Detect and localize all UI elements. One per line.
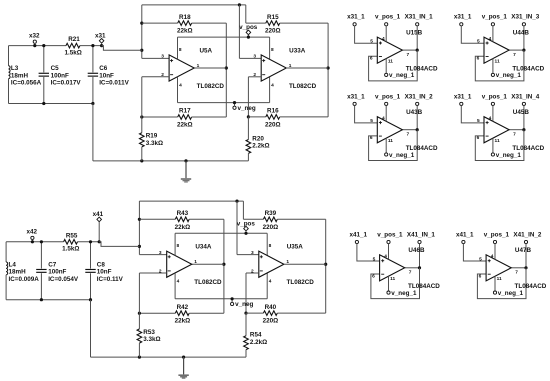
svg-text:U43B: U43B bbox=[406, 109, 423, 116]
resistor R53 bbox=[137, 273, 161, 357]
node x41 bbox=[93, 211, 104, 244]
svg-text:6: 6 bbox=[477, 56, 480, 62]
svg-text:U45B: U45B bbox=[513, 109, 530, 116]
svg-text:2.2kΩ: 2.2kΩ bbox=[252, 143, 269, 150]
node v_pos top bbox=[239, 24, 258, 39]
node v_pos_1 (U43B) bbox=[375, 93, 401, 105]
node x42 bbox=[27, 229, 38, 244]
svg-text:X31_IN_1: X31_IN_1 bbox=[405, 14, 434, 21]
node v_pos_1 (U47B) bbox=[484, 231, 510, 243]
svg-text:v_pos: v_pos bbox=[239, 24, 258, 31]
svg-text:7: 7 bbox=[406, 132, 409, 138]
svg-text:220Ω: 220Ω bbox=[265, 28, 281, 35]
svg-text:100nF: 100nF bbox=[51, 72, 69, 79]
pin numbers U34A bbox=[159, 243, 197, 285]
svg-text:v_pos_1: v_pos_1 bbox=[377, 231, 403, 238]
svg-text:3.3kΩ: 3.3kΩ bbox=[143, 336, 160, 343]
svg-text:4: 4 bbox=[489, 116, 492, 122]
capacitor C5 bbox=[39, 44, 82, 104]
resistor R20 bbox=[246, 117, 270, 161]
wire top U1 output node bbox=[194, 23, 228, 117]
wire U44B feedback bbox=[475, 50, 524, 81]
wire top v_pos rail bbox=[178, 37, 270, 59]
svg-text:4: 4 bbox=[384, 254, 387, 260]
svg-text:x31_1: x31_1 bbox=[454, 14, 472, 21]
svg-text:x31_1: x31_1 bbox=[347, 93, 365, 100]
wire U44B input bbox=[461, 26, 484, 44]
svg-text:10nF: 10nF bbox=[99, 72, 114, 79]
capacitor C8 bbox=[85, 240, 123, 300]
svg-text:TL082CD: TL082CD bbox=[289, 83, 317, 90]
node v_neg top bbox=[233, 101, 256, 112]
svg-text:v_pos_1: v_pos_1 bbox=[482, 14, 508, 21]
svg-text:R55: R55 bbox=[66, 232, 78, 239]
svg-text:18mH: 18mH bbox=[9, 269, 27, 276]
wire bot U2 output node bbox=[284, 219, 327, 313]
wire U45B input bbox=[461, 105, 484, 123]
wire bot non-inv node rail bbox=[138, 200, 244, 255]
svg-text:22kΩ: 22kΩ bbox=[175, 318, 191, 325]
svg-text:IC=0.11V: IC=0.11V bbox=[97, 276, 124, 283]
svg-text:2: 2 bbox=[161, 72, 164, 78]
svg-text:18mH: 18mH bbox=[11, 72, 29, 79]
svg-text:6: 6 bbox=[477, 135, 480, 141]
svg-text:R54: R54 bbox=[250, 332, 262, 339]
svg-text:X31_IN_4: X31_IN_4 bbox=[511, 93, 540, 100]
svg-text:U33A: U33A bbox=[289, 47, 306, 54]
svg-text:3: 3 bbox=[161, 54, 164, 60]
svg-text:R40: R40 bbox=[265, 304, 277, 311]
node x31 bbox=[95, 32, 106, 47]
resistor R18 bbox=[142, 14, 227, 35]
svg-text:U15B: U15B bbox=[406, 29, 423, 36]
svg-text:IC=0.017V: IC=0.017V bbox=[51, 80, 82, 87]
svg-text:6: 6 bbox=[370, 56, 373, 62]
svg-text:5: 5 bbox=[370, 39, 373, 45]
svg-text:L3: L3 bbox=[11, 65, 19, 72]
svg-text:U44B: U44B bbox=[513, 29, 530, 36]
node X31_IN_3 (U44B) bbox=[511, 14, 540, 26]
svg-text:R39: R39 bbox=[265, 210, 277, 217]
svg-text:X41_IN_2: X41_IN_2 bbox=[513, 231, 542, 238]
node X41_IN_2 (U47B) bbox=[513, 231, 542, 243]
svg-text:R16: R16 bbox=[267, 108, 279, 115]
node X31_IN_4 (U45B) bbox=[511, 93, 540, 105]
op-amp U33A bbox=[261, 47, 316, 90]
svg-text:v_neg_1: v_neg_1 bbox=[496, 152, 522, 159]
op-amp U5A bbox=[142, 37, 225, 103]
pin numbers U43B bbox=[370, 116, 410, 145]
node X31_IN_2 (U43B) bbox=[405, 93, 434, 105]
wire top v_neg rail bbox=[178, 77, 270, 103]
node v_neg_1 (U45B) bbox=[491, 152, 521, 159]
svg-text:3: 3 bbox=[159, 250, 162, 256]
svg-text:7: 7 bbox=[515, 270, 518, 276]
svg-text:8: 8 bbox=[269, 243, 272, 249]
node X41_IN_1 (U46B) bbox=[407, 231, 436, 243]
svg-text:v_neg: v_neg bbox=[238, 105, 256, 112]
wire top U2 output node bbox=[286, 23, 329, 117]
svg-text:220Ω: 220Ω bbox=[263, 318, 279, 325]
resistor R17 bbox=[140, 108, 226, 129]
svg-text:R53: R53 bbox=[143, 329, 155, 336]
svg-text:4: 4 bbox=[177, 279, 180, 285]
svg-text:v_neg_1: v_neg_1 bbox=[498, 290, 524, 297]
svg-text:7: 7 bbox=[513, 132, 516, 138]
svg-text:5: 5 bbox=[477, 118, 480, 124]
svg-text:6: 6 bbox=[370, 135, 373, 141]
ground top bbox=[181, 161, 191, 183]
svg-text:R17: R17 bbox=[179, 108, 191, 115]
svg-text:x31_1: x31_1 bbox=[347, 14, 365, 21]
svg-text:4: 4 bbox=[269, 279, 272, 285]
svg-text:R20: R20 bbox=[252, 136, 264, 143]
pin numbers U46B bbox=[372, 254, 412, 283]
op-amp U43B bbox=[377, 105, 438, 153]
ground bot bbox=[178, 357, 188, 379]
pin numbers U33A bbox=[253, 47, 291, 89]
svg-text:R19: R19 bbox=[146, 133, 158, 140]
inductor L4 bbox=[6, 242, 39, 300]
node x31_1 (U45B) bbox=[454, 93, 472, 105]
wire bot ground rail bbox=[91, 356, 247, 359]
svg-text:x42: x42 bbox=[27, 229, 38, 236]
svg-text:U5A: U5A bbox=[199, 47, 212, 54]
node v_neg bot bbox=[231, 297, 254, 308]
svg-text:U47B: U47B bbox=[515, 247, 532, 254]
node x41_1 (U47B) bbox=[456, 231, 474, 243]
svg-text:2: 2 bbox=[159, 268, 162, 274]
svg-text:1: 1 bbox=[197, 63, 200, 69]
node v_pos_1 (U15B) bbox=[375, 14, 401, 26]
svg-text:v_pos: v_pos bbox=[237, 220, 256, 227]
svg-text:R18: R18 bbox=[179, 14, 191, 21]
wire U43B feedback bbox=[369, 130, 418, 161]
wire bot input jog bbox=[99, 242, 139, 247]
svg-text:X31_IN_2: X31_IN_2 bbox=[405, 93, 434, 100]
op-amp U44B bbox=[484, 26, 545, 74]
svg-text:R21: R21 bbox=[68, 36, 80, 43]
svg-text:5: 5 bbox=[373, 256, 376, 262]
svg-text:6: 6 bbox=[372, 273, 375, 279]
inductor L3 bbox=[9, 46, 42, 104]
svg-text:IC=0.054V: IC=0.054V bbox=[48, 276, 79, 283]
svg-text:v_pos_1: v_pos_1 bbox=[375, 14, 401, 21]
node x31_1 (U43B) bbox=[347, 93, 365, 105]
node v_pos_1 (U46B) bbox=[377, 231, 403, 243]
svg-text:7: 7 bbox=[406, 52, 409, 58]
pin numbers U47B bbox=[479, 254, 519, 283]
svg-text:1.5kΩ: 1.5kΩ bbox=[65, 49, 82, 56]
wire U45B feedback bbox=[475, 130, 524, 161]
svg-text:4: 4 bbox=[382, 36, 385, 42]
svg-text:7: 7 bbox=[409, 270, 412, 276]
svg-text:v_neg_1: v_neg_1 bbox=[391, 290, 417, 297]
svg-text:v_pos_1: v_pos_1 bbox=[375, 93, 401, 100]
svg-text:220Ω: 220Ω bbox=[265, 121, 281, 128]
svg-text:100nF: 100nF bbox=[48, 269, 66, 276]
wire top RLC bottom bbox=[9, 102, 95, 161]
resistor R54 bbox=[244, 313, 268, 357]
svg-text:TL082CD: TL082CD bbox=[194, 279, 222, 286]
svg-text:x31_1: x31_1 bbox=[454, 93, 472, 100]
wire U47B feedback bbox=[477, 268, 526, 299]
svg-text:U35A: U35A bbox=[287, 244, 304, 251]
svg-text:IC=0.056A: IC=0.056A bbox=[11, 80, 42, 87]
svg-text:22kΩ: 22kΩ bbox=[177, 121, 193, 128]
node v_neg_1 (U47B) bbox=[493, 290, 523, 297]
svg-text:4: 4 bbox=[179, 82, 182, 88]
resistor R19 bbox=[140, 77, 164, 161]
svg-text:TL082CD: TL082CD bbox=[287, 279, 315, 286]
wire U46B output bbox=[405, 244, 421, 270]
svg-text:4: 4 bbox=[489, 36, 492, 42]
svg-text:11: 11 bbox=[497, 276, 502, 282]
wire bot RLC top node bbox=[6, 241, 99, 243]
svg-text:1: 1 bbox=[194, 259, 197, 265]
op-amp U47B bbox=[486, 244, 547, 292]
svg-text:v_neg_1: v_neg_1 bbox=[496, 72, 522, 79]
resistor R42 bbox=[138, 304, 224, 325]
wire U15B output bbox=[402, 26, 418, 52]
svg-text:X41_IN_1: X41_IN_1 bbox=[407, 231, 436, 238]
svg-text:11: 11 bbox=[390, 276, 395, 282]
svg-text:v_neg_1: v_neg_1 bbox=[389, 152, 415, 159]
resistor R55 bbox=[62, 232, 79, 252]
node x32 bbox=[29, 33, 40, 48]
svg-text:v_pos_1: v_pos_1 bbox=[482, 93, 508, 100]
svg-text:3: 3 bbox=[251, 250, 254, 256]
svg-text:4: 4 bbox=[382, 116, 385, 122]
node v_pos bot bbox=[237, 220, 256, 235]
node x31_1 (U15B) bbox=[347, 14, 365, 26]
op-amp U46B bbox=[380, 244, 441, 292]
svg-text:C8: C8 bbox=[97, 261, 106, 268]
svg-text:4: 4 bbox=[271, 82, 274, 88]
svg-text:IC=0.011V: IC=0.011V bbox=[99, 80, 129, 87]
node v_neg_1 (U43B) bbox=[385, 152, 415, 159]
svg-text:8: 8 bbox=[271, 47, 274, 53]
pin numbers U15B bbox=[370, 36, 410, 65]
capacitor C6 bbox=[88, 44, 130, 104]
svg-text:11: 11 bbox=[388, 59, 393, 65]
svg-text:C7: C7 bbox=[48, 261, 57, 268]
wire bot U1 output node bbox=[192, 219, 226, 313]
wire top ground rail bbox=[93, 159, 249, 162]
svg-text:x31: x31 bbox=[95, 32, 106, 39]
svg-text:v_pos_1: v_pos_1 bbox=[484, 231, 510, 238]
svg-text:5: 5 bbox=[477, 39, 480, 45]
svg-text:x41_1: x41_1 bbox=[349, 231, 367, 238]
svg-text:3: 3 bbox=[253, 54, 256, 60]
svg-text:11: 11 bbox=[495, 138, 500, 144]
svg-text:U34A: U34A bbox=[195, 244, 212, 251]
node v_neg_1 (U44B) bbox=[491, 72, 521, 79]
svg-text:R42: R42 bbox=[177, 304, 189, 311]
svg-text:v_neg: v_neg bbox=[235, 301, 253, 308]
svg-text:C6: C6 bbox=[99, 65, 108, 72]
node x31_1 (U44B) bbox=[454, 14, 472, 26]
node v_pos_1 (U45B) bbox=[482, 93, 508, 105]
wire U47B input bbox=[463, 244, 486, 262]
svg-text:4: 4 bbox=[491, 254, 494, 260]
resistor R21 bbox=[65, 36, 82, 56]
node X31_IN_1 (U15B) bbox=[405, 14, 434, 26]
svg-text:5: 5 bbox=[370, 118, 373, 124]
svg-text:x41: x41 bbox=[93, 211, 104, 218]
wire top U2 non-inv input bbox=[239, 5, 261, 59]
wire bot U2 inv input bbox=[244, 273, 258, 315]
resistor R40 bbox=[246, 304, 326, 325]
node v_neg_1 (U46B) bbox=[387, 290, 417, 297]
node x41_1 (U46B) bbox=[349, 231, 367, 243]
wire U43B input bbox=[355, 105, 378, 123]
resistor R39 bbox=[243, 210, 325, 231]
resistor R15 bbox=[246, 14, 328, 35]
svg-text:22kΩ: 22kΩ bbox=[175, 224, 191, 231]
svg-text:8: 8 bbox=[179, 47, 182, 53]
pin numbers U35A bbox=[251, 243, 289, 285]
wire bot v_pos rail bbox=[175, 233, 267, 255]
node v_neg_1 (U15B) bbox=[385, 72, 415, 79]
svg-text:R15: R15 bbox=[267, 14, 279, 21]
svg-text:10nF: 10nF bbox=[97, 269, 112, 276]
svg-text:IC=0.009A: IC=0.009A bbox=[9, 276, 40, 283]
svg-text:x41_1: x41_1 bbox=[456, 231, 474, 238]
svg-text:X31_IN_3: X31_IN_3 bbox=[511, 14, 540, 21]
node v_pos_1 (U44B) bbox=[482, 14, 508, 26]
wire U44B output bbox=[509, 26, 525, 52]
svg-text:x32: x32 bbox=[29, 33, 40, 40]
svg-text:22kΩ: 22kΩ bbox=[177, 28, 193, 35]
op-amp U34A bbox=[139, 233, 222, 298]
wire top U2 inv input bbox=[247, 77, 261, 119]
wire U43B output bbox=[402, 105, 418, 131]
resistor R16 bbox=[248, 108, 328, 129]
op-amp U45B bbox=[484, 105, 545, 153]
wire U46B feedback bbox=[371, 268, 420, 299]
svg-text:11: 11 bbox=[495, 59, 500, 65]
wire top input jog bbox=[102, 46, 142, 51]
svg-text:C5: C5 bbox=[51, 65, 60, 72]
op-amp U35A bbox=[259, 244, 314, 287]
pin numbers U45B bbox=[477, 116, 517, 145]
svg-text:2.2kΩ: 2.2kΩ bbox=[250, 339, 267, 346]
svg-text:1.5kΩ: 1.5kΩ bbox=[62, 246, 79, 253]
wire U15B feedback bbox=[369, 50, 418, 81]
wire U15B input bbox=[355, 26, 378, 44]
pin numbers U5A bbox=[161, 47, 199, 89]
wire bot RLC bottom bbox=[6, 298, 92, 357]
svg-text:220Ω: 220Ω bbox=[263, 224, 279, 231]
svg-text:11: 11 bbox=[388, 138, 393, 144]
wire top RLC top node bbox=[9, 45, 102, 47]
wire U46B input bbox=[357, 244, 380, 262]
svg-text:7: 7 bbox=[513, 52, 516, 58]
svg-text:TL082CD: TL082CD bbox=[197, 83, 225, 90]
svg-text:v_neg_1: v_neg_1 bbox=[389, 72, 415, 79]
resistor R43 bbox=[139, 210, 224, 231]
op-amp U15B bbox=[377, 26, 438, 74]
svg-text:U46B: U46B bbox=[408, 247, 425, 254]
wire bot v_neg rail bbox=[175, 273, 267, 299]
wire bot U2 non-inv input bbox=[237, 201, 259, 255]
wire U47B output bbox=[511, 244, 527, 270]
capacitor C7 bbox=[36, 240, 79, 300]
svg-text:5: 5 bbox=[479, 256, 482, 262]
pin numbers U44B bbox=[477, 36, 517, 65]
svg-text:R43: R43 bbox=[177, 210, 189, 217]
svg-text:6: 6 bbox=[479, 273, 482, 279]
wire U45B output bbox=[509, 105, 525, 131]
wire top non-inv node rail bbox=[140, 3, 246, 58]
svg-text:L4: L4 bbox=[9, 261, 17, 268]
svg-text:3.3kΩ: 3.3kΩ bbox=[146, 140, 163, 147]
svg-text:8: 8 bbox=[176, 243, 179, 249]
